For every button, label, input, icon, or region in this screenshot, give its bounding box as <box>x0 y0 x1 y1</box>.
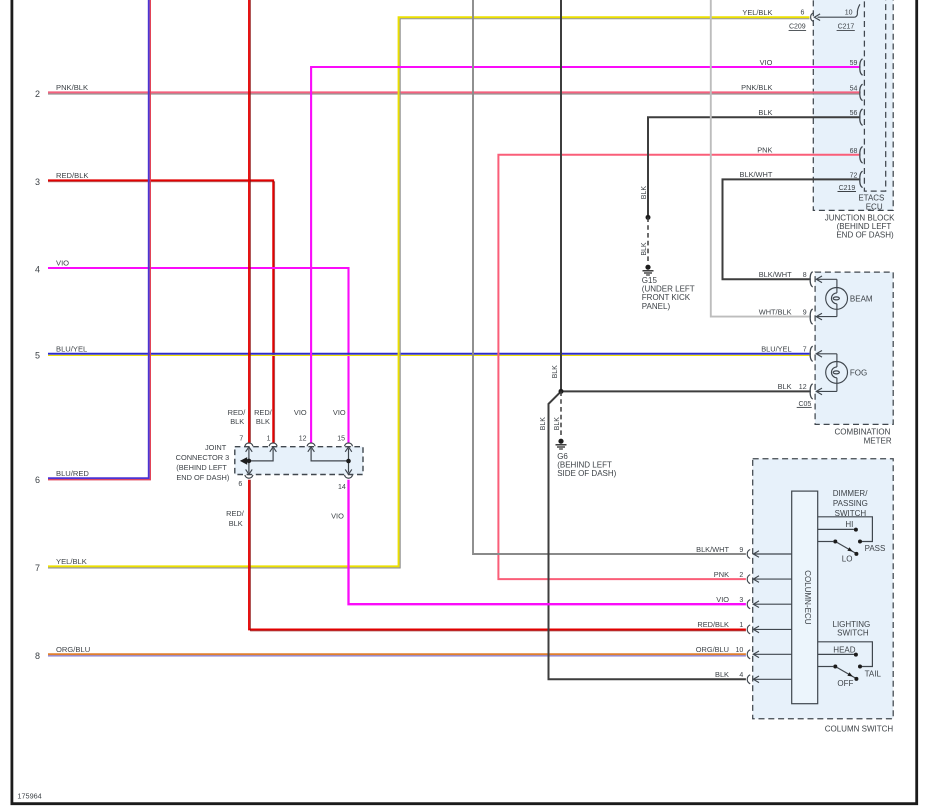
svg-text:OFF: OFF <box>837 679 853 688</box>
svg-text:PNK: PNK <box>714 570 729 579</box>
label BLK vertical above G6 junction <box>552 365 559 379</box>
svg-text:PASSING: PASSING <box>833 499 868 508</box>
joint connector bus left arrow <box>240 457 247 465</box>
joint connector bus right segment <box>311 449 348 461</box>
svg-text:BLK: BLK <box>540 417 547 431</box>
joint connector pin 1 arrow <box>270 447 277 452</box>
svg-text:9: 9 <box>739 547 743 554</box>
svg-text:VIO: VIO <box>760 58 773 67</box>
svg-text:8: 8 <box>803 272 807 279</box>
connector C209 label <box>789 24 807 31</box>
meter pin 8 terminal <box>810 272 813 287</box>
pin number 7 <box>239 435 243 442</box>
pin number 14 <box>338 484 346 491</box>
svg-text:7: 7 <box>803 347 807 354</box>
label VIO above pin 12 <box>294 408 307 417</box>
svg-text:ORG/BLU: ORG/BLU <box>56 645 90 654</box>
diagram number 175964 <box>17 791 41 800</box>
svg-text:ETACS: ETACS <box>858 194 884 203</box>
meter pin 9 arrow wire <box>816 309 837 320</box>
label BLK vertical dashed G15 <box>641 242 648 256</box>
pin number 10 <box>736 647 744 654</box>
svg-text:10: 10 <box>736 647 744 654</box>
svg-text:BLK: BLK <box>552 365 559 379</box>
svg-text:C05: C05 <box>798 401 811 408</box>
svg-text:BLK/WHT: BLK/WHT <box>759 270 792 279</box>
svg-text:CONNECTOR 3: CONNECTOR 3 <box>176 453 230 462</box>
label RED/BLK above pin 1 <box>254 408 273 426</box>
svg-text:VIO: VIO <box>331 511 344 520</box>
svg-text:BEAM: BEAM <box>850 295 873 304</box>
svg-text:TAIL: TAIL <box>865 670 882 679</box>
lighting switch TAIL contact wire <box>818 642 873 669</box>
G6 label <box>557 452 616 478</box>
label BLK pin 56 <box>758 108 772 117</box>
wire VIO joint connector pin 14 to COLUMN-ECU pin 3 <box>349 480 746 604</box>
COLUMN-ECU pin 4 arrow wire <box>753 676 791 683</box>
pin number 54 <box>850 85 858 92</box>
joint connector pin 6 terminal <box>245 475 253 478</box>
lighting switch common wire <box>818 665 838 669</box>
label BLK/WHT pin 8 <box>759 270 792 279</box>
wire 7 YEL/BLK <box>35 17 810 573</box>
label BLU/YEL pin 7 <box>761 345 791 354</box>
svg-text:RED/: RED/ <box>228 408 247 417</box>
svg-text:LIGHTING: LIGHTING <box>833 620 871 629</box>
pin number 7 <box>803 347 807 354</box>
svg-text:BLU/RED: BLU/RED <box>56 469 89 478</box>
wire 8 ORG/BLU <box>35 645 746 661</box>
label VIO above pin 15 <box>333 408 346 417</box>
svg-text:VIO: VIO <box>716 595 729 604</box>
joint connector pin 15 terminal <box>345 443 353 446</box>
svg-text:6: 6 <box>800 10 804 17</box>
joint connector pin 6 arrow <box>246 461 253 474</box>
label ORG/BLU pin 10 <box>696 645 729 654</box>
COLUMN-ECU box <box>792 491 818 704</box>
ETACS ECU <box>858 0 885 211</box>
pin number 6 C209 <box>800 10 804 17</box>
svg-text:56: 56 <box>850 110 858 117</box>
wire PNK pin 68 to COLUMN-ECU pin 2 <box>498 155 860 579</box>
wire BLK/WHT pin 72 to meter pin 8 <box>723 179 860 279</box>
label FOG <box>850 369 867 378</box>
svg-text:END OF DASH): END OF DASH) <box>176 473 229 482</box>
svg-text:175964: 175964 <box>17 791 41 800</box>
svg-text:BLK/WHT: BLK/WHT <box>696 545 729 554</box>
COLUMN-ECU pin 4 terminal <box>747 675 750 684</box>
svg-text:C219: C219 <box>839 185 856 192</box>
label BEAM <box>850 295 873 304</box>
dimmer/passing switch label <box>833 489 868 518</box>
svg-text:G6: G6 <box>557 452 568 461</box>
COLUMN-ECU pin 10 arrow wire <box>753 651 791 658</box>
label YEL/BLK pin 6 <box>742 8 772 17</box>
label VIO below pin 14 <box>331 511 344 520</box>
svg-text:5: 5 <box>35 351 40 361</box>
svg-text:C209: C209 <box>789 24 806 31</box>
meter pin 12 terminal <box>810 384 813 399</box>
label VIO pin 59 <box>760 58 773 67</box>
meter pin 7 terminal <box>810 346 813 361</box>
junction node BLK G15 <box>646 215 651 220</box>
joint connector pin 1 terminal <box>269 443 277 446</box>
junction block pin 68 terminal <box>860 147 863 163</box>
wire BLK dashed to G6 ground <box>560 391 562 437</box>
joint connector bus left segment <box>241 449 273 461</box>
label BLK vertical left branch <box>540 417 547 431</box>
svg-text:FOG: FOG <box>850 369 867 378</box>
wire BLK dashed to G15 ground <box>647 217 649 261</box>
wire BLK junction to meter pin 12 <box>561 390 810 392</box>
label PNK pin 2 <box>714 570 729 579</box>
svg-text:1: 1 <box>739 622 743 629</box>
ground G6 <box>556 439 567 449</box>
label LO <box>842 554 853 563</box>
lamp FOG <box>826 362 848 384</box>
svg-text:HI: HI <box>845 520 853 529</box>
svg-text:PNK/BLK: PNK/BLK <box>56 83 88 92</box>
svg-text:BLU/YEL: BLU/YEL <box>761 345 791 354</box>
wire 5 BLU/YEL <box>35 345 810 361</box>
joint connector pin 7 arrow <box>246 447 253 461</box>
svg-text:BLK: BLK <box>229 519 243 528</box>
svg-text:(UNDER LEFT: (UNDER LEFT <box>642 285 695 294</box>
svg-text:C217: C217 <box>838 24 855 31</box>
svg-text:7: 7 <box>35 563 40 573</box>
svg-text:RED/: RED/ <box>226 509 245 518</box>
svg-text:3: 3 <box>35 177 40 187</box>
svg-text:6: 6 <box>238 481 242 488</box>
junction block pin 59 terminal <box>860 59 863 75</box>
svg-text:VIO: VIO <box>56 259 69 268</box>
svg-text:BLK: BLK <box>641 242 648 256</box>
junction block (behind left end of dash) <box>813 0 893 210</box>
svg-text:COMBINATION: COMBINATION <box>835 428 891 437</box>
svg-text:FRONT KICK: FRONT KICK <box>642 293 691 302</box>
dimmer switch PASS contact wire <box>818 517 873 544</box>
svg-text:7: 7 <box>239 435 243 442</box>
pin number 1 <box>267 435 271 442</box>
dimmer switch HI contact wire <box>818 528 858 532</box>
label RED/BLK below pin 6 <box>226 509 245 528</box>
svg-text:72: 72 <box>850 172 858 179</box>
label TAIL <box>865 670 882 679</box>
svg-text:METER: METER <box>864 437 892 446</box>
joint connector 3 label <box>176 443 230 482</box>
svg-text:6: 6 <box>35 475 40 485</box>
junction block pin 56 terminal <box>860 109 863 125</box>
svg-text:PANEL): PANEL) <box>642 302 671 311</box>
wire BLK/WHT to COLUMN-ECU pin 9 <box>473 0 746 554</box>
COLUMN-ECU pin 1 arrow wire <box>753 626 791 633</box>
COLUMN-ECU pin 10 terminal <box>747 650 750 659</box>
svg-text:4: 4 <box>739 672 743 679</box>
svg-text:12: 12 <box>299 436 307 443</box>
svg-text:END OF DASH): END OF DASH) <box>836 231 894 240</box>
svg-text:COLUMN SWITCH: COLUMN SWITCH <box>825 725 894 734</box>
wire 2 PNK/BLK <box>35 83 860 99</box>
meter pin 9 terminal <box>810 309 813 324</box>
joint connector pin 7 terminal <box>245 443 253 446</box>
label WHT/BLK pin 9 <box>759 307 792 316</box>
wire RED/BLK joint connector pin 6 to COLUMN-ECU pin 1 <box>249 480 746 631</box>
COLUMN-ECU pin 9 arrow wire <box>753 551 791 558</box>
svg-text:2: 2 <box>739 572 743 579</box>
svg-text:BLK: BLK <box>554 417 561 431</box>
connector C05 label <box>797 401 812 408</box>
svg-text:BLK: BLK <box>758 108 772 117</box>
wire RED/BLK top to joint connector pin 7 <box>249 0 251 443</box>
label BLK/WHT pin 9 <box>696 545 729 554</box>
svg-text:YEL/BLK: YEL/BLK <box>742 8 772 17</box>
lamp BEAM <box>826 287 848 309</box>
svg-text:DIMMER/: DIMMER/ <box>833 489 868 498</box>
label BLK vertical dashed G6 <box>554 417 561 431</box>
svg-text:BLK: BLK <box>641 186 648 200</box>
svg-text:BLU/YEL: BLU/YEL <box>56 345 87 354</box>
wire 6 BLU/RED <box>35 0 150 485</box>
svg-text:COLUMN-ECU: COLUMN-ECU <box>803 570 812 624</box>
junction block pin 54 terminal <box>860 84 863 100</box>
svg-text:BLK/WHT: BLK/WHT <box>740 170 773 179</box>
connector C217 label <box>837 24 855 31</box>
pin number 1 <box>739 622 743 629</box>
wire 4 VIO <box>35 259 349 443</box>
meter pin 12 arrow wire <box>816 383 837 394</box>
junction block pin 72 terminal <box>860 171 863 187</box>
svg-text:ECU: ECU <box>866 202 883 211</box>
pin number 3 <box>739 597 743 604</box>
connector C209 terminal <box>811 13 814 22</box>
svg-text:8: 8 <box>35 651 40 661</box>
label HEAD <box>833 646 855 655</box>
svg-text:12: 12 <box>799 384 807 391</box>
pin number 59 <box>850 60 858 67</box>
label RED/BLK pin 1 <box>697 620 729 629</box>
pin number 8 <box>803 272 807 279</box>
svg-text:RED/BLK: RED/BLK <box>56 171 89 180</box>
wire BLK junction to COLUMN-ECU pin 4 <box>549 391 746 679</box>
svg-text:BLK: BLK <box>230 417 244 426</box>
label BLK vertical above G15 junction <box>641 186 648 200</box>
label VIO pin 3 <box>716 595 729 604</box>
wire VIO pin 59 to joint connector pin 12 <box>311 67 860 443</box>
pin number 12 <box>299 436 307 443</box>
svg-text:RED/: RED/ <box>254 408 273 417</box>
label OFF <box>837 679 853 688</box>
combination meter box <box>815 272 893 446</box>
wire BLK pin 56 to G15 <box>648 117 860 217</box>
svg-text:59: 59 <box>850 60 858 67</box>
COLUMN-ECU pin 2 arrow wire <box>753 576 791 583</box>
COLUMN-ECU pin 3 arrow wire <box>753 601 791 608</box>
joint connector pin 12 terminal <box>307 443 315 446</box>
pin number 68 <box>850 148 858 155</box>
svg-text:14: 14 <box>338 484 346 491</box>
svg-text:15: 15 <box>337 436 345 443</box>
pin number 6 <box>238 481 242 488</box>
wire BLK top to junction <box>560 0 562 391</box>
label RED/BLK above pin 7 <box>228 408 247 426</box>
svg-text:SWITCH: SWITCH <box>837 629 869 638</box>
joint connector pin 12 arrow <box>308 447 315 452</box>
svg-text:ORG/BLU: ORG/BLU <box>696 645 729 654</box>
lighting switch label <box>833 620 871 638</box>
label PNK/BLK pin 54 <box>741 83 772 92</box>
joint connector pin 14 arrow <box>345 461 352 474</box>
svg-text:9: 9 <box>803 309 807 316</box>
pin number 4 <box>739 672 743 679</box>
svg-text:BLK: BLK <box>778 382 792 391</box>
G15 label <box>642 276 695 311</box>
junction node BLK G6 <box>559 389 564 394</box>
svg-text:2: 2 <box>35 89 40 99</box>
pin number 9 <box>739 547 743 554</box>
svg-text:VIO: VIO <box>294 408 307 417</box>
pin number 12 <box>799 384 807 391</box>
svg-text:(BEHIND LEFT: (BEHIND LEFT <box>176 463 227 472</box>
svg-text:VIO: VIO <box>333 408 346 417</box>
svg-text:10: 10 <box>845 10 853 17</box>
label BLK pin 4 <box>715 670 729 679</box>
COLUMN-ECU pin 1 terminal <box>747 625 750 634</box>
ground G15 <box>643 265 654 275</box>
label PNK pin 68 <box>757 146 772 155</box>
wire 3 RED/BLK <box>35 171 275 443</box>
svg-text:68: 68 <box>850 148 858 155</box>
svg-text:PNK/BLK: PNK/BLK <box>741 83 772 92</box>
svg-text:G15: G15 <box>642 276 658 285</box>
lighting switch blade <box>837 667 859 681</box>
label BLK pin 12 <box>778 382 792 391</box>
svg-text:YEL/BLK: YEL/BLK <box>56 557 87 566</box>
connector C219 label <box>838 185 857 192</box>
svg-text:54: 54 <box>850 85 858 92</box>
svg-text:1: 1 <box>267 435 271 442</box>
junction block label <box>825 213 895 239</box>
svg-text:(BEHIND LEFT: (BEHIND LEFT <box>557 461 612 470</box>
column switch box <box>753 459 894 734</box>
svg-text:SIDE OF DASH): SIDE OF DASH) <box>557 469 616 478</box>
joint connector node pin 15 <box>346 459 351 464</box>
COLUMN-ECU pin 2 terminal <box>747 575 750 584</box>
svg-text:WHT/BLK: WHT/BLK <box>759 307 792 316</box>
joint connector 3 box <box>235 447 363 475</box>
svg-text:BLK: BLK <box>256 417 270 426</box>
joint connector node pin 7 <box>247 459 252 464</box>
dimmer switch blade <box>837 542 859 556</box>
dimmer switch common wire <box>818 540 838 544</box>
COLUMN-ECU pin 3 terminal <box>747 600 750 609</box>
wire arrow C217 pin 10 to C209 pin 6 <box>814 4 860 20</box>
svg-text:RED/BLK: RED/BLK <box>697 620 729 629</box>
meter pin 8 arrow wire <box>816 276 837 287</box>
COLUMN-ECU pin 9 terminal <box>747 550 750 559</box>
label PASS <box>865 544 886 553</box>
svg-text:HEAD: HEAD <box>833 646 855 655</box>
meter pin 7 arrow wire <box>816 351 837 362</box>
svg-text:4: 4 <box>35 265 40 275</box>
pin number 72 <box>850 172 858 179</box>
label BLK/WHT pin 72 <box>740 170 773 179</box>
lighting switch HEAD contact wire <box>818 653 858 657</box>
svg-text:JOINT: JOINT <box>205 443 227 452</box>
svg-text:3: 3 <box>739 597 743 604</box>
pin number 10 C217 <box>845 10 853 17</box>
svg-text:LO: LO <box>842 554 853 563</box>
svg-text:BLK: BLK <box>715 670 729 679</box>
pin number 9 <box>803 309 807 316</box>
svg-text:PNK: PNK <box>757 146 772 155</box>
wire WHT/BLK to meter pin 9 <box>711 0 810 317</box>
pin number 56 <box>850 110 858 117</box>
svg-text:JUNCTION BLOCK: JUNCTION BLOCK <box>825 213 895 222</box>
pin number 15 <box>337 436 345 443</box>
svg-text:PASS: PASS <box>865 544 886 553</box>
joint connector pin 14 terminal <box>345 475 353 478</box>
label HI <box>845 520 853 529</box>
joint connector pin 15 arrow <box>345 447 352 461</box>
pin number 2 <box>739 572 743 579</box>
